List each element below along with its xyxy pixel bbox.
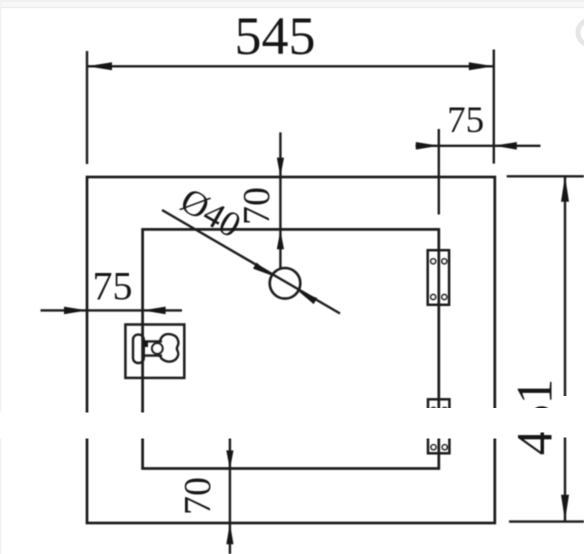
dim 545 extension line left bbox=[86, 51, 88, 164]
dim 75 right extension line bbox=[438, 129, 440, 215]
white redaction band middle bbox=[260, 408, 510, 439]
inner door rectangle bbox=[143, 229, 439, 468]
lock mounting square bbox=[125, 325, 184, 378]
dim 451 extension line top bbox=[507, 175, 584, 177]
dim 70 bottom arrow up bbox=[226, 523, 233, 544]
hole circle D40 bbox=[270, 268, 301, 299]
dim text 70 top bbox=[236, 187, 278, 225]
lock neck bottom edge bbox=[144, 354, 162, 356]
svg-text:70: 70 bbox=[177, 477, 219, 515]
dim 70 bottom shaft upper bbox=[229, 438, 231, 554]
svg-text:75: 75 bbox=[447, 100, 484, 141]
diameter leader arrow upper bbox=[253, 263, 272, 276]
hinge upper screw 3 bbox=[431, 295, 436, 300]
dim 451 arrow down bbox=[561, 495, 569, 521]
dim 545 dimension line bbox=[87, 65, 494, 67]
svg-text:545: 545 bbox=[235, 6, 316, 66]
dim 545 extension line right bbox=[493, 50, 495, 164]
lock right lobe bbox=[160, 334, 178, 362]
white redaction band left bbox=[0, 413, 260, 439]
dim text 70 bottom bbox=[177, 477, 219, 515]
dim 545 arrow left bbox=[87, 62, 112, 70]
hinge lower screw 1 bbox=[431, 408, 436, 413]
diameter leader arrow lower bbox=[298, 291, 317, 304]
corner watermark circle bbox=[578, 20, 584, 45]
lock left tab bbox=[133, 335, 144, 363]
dim 75 left dimension line bbox=[41, 309, 183, 311]
hinge upper plate bbox=[428, 250, 449, 305]
hinge upper screw 2 bbox=[442, 259, 447, 264]
dim 451 dimension line bbox=[564, 176, 566, 521]
white redaction band right bbox=[558, 396, 584, 438]
dim 70 bottom arrow down bbox=[226, 450, 233, 469]
hinge upper screw 4 bbox=[442, 295, 447, 300]
dim 451 arrow up bbox=[561, 176, 569, 202]
hinge lower screw 2 bbox=[442, 408, 447, 413]
lock keeper block bbox=[143, 341, 148, 347]
dim 545 arrow right bbox=[469, 62, 494, 70]
dim 75 right arrow left bbox=[416, 142, 439, 150]
dim text 75 left bbox=[93, 263, 133, 308]
dim 70 top arrow down bbox=[277, 158, 284, 177]
hinge lower plate bbox=[428, 399, 449, 453]
dim 75 left arrow right bbox=[143, 307, 166, 315]
dim 70 top shaft bbox=[279, 132, 281, 268]
dim 451 extension line bottom bbox=[509, 520, 584, 522]
dim text diameter 40 bbox=[174, 180, 248, 246]
hinge lower screw 4 bbox=[442, 445, 447, 450]
dim text 75 right bbox=[447, 100, 484, 141]
white redaction band right-middle bbox=[510, 408, 558, 433]
dim 75 right dimension line bbox=[416, 145, 541, 147]
dim text 545 bbox=[235, 6, 316, 66]
hinge upper screw 1 bbox=[431, 259, 436, 264]
dim 75 right arrow right bbox=[494, 142, 517, 150]
outer panel rectangle bbox=[87, 177, 495, 523]
svg-text:75: 75 bbox=[93, 263, 133, 308]
dim text 451 bbox=[508, 379, 564, 456]
hinge lower screw 3 bbox=[431, 445, 436, 450]
dim 75 left arrow left bbox=[64, 307, 87, 315]
diameter leader line bbox=[162, 210, 340, 314]
lock neck top edge bbox=[144, 340, 162, 342]
lock cylinder circle bbox=[152, 343, 163, 354]
dim 70 top arrow up bbox=[277, 230, 284, 249]
